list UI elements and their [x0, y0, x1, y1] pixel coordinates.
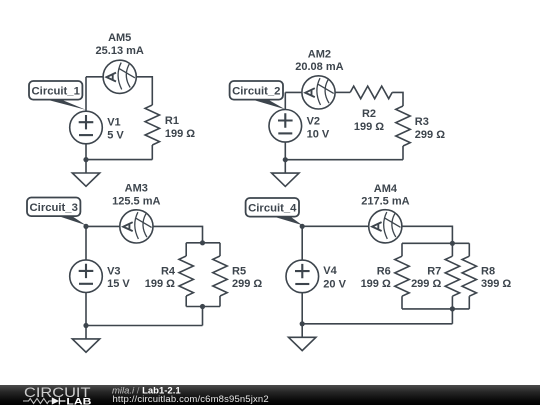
svg-text:LAB: LAB — [66, 396, 91, 406]
svg-text:15 V: 15 V — [107, 278, 130, 290]
svg-text:Circuit_3: Circuit_3 — [30, 202, 78, 214]
svg-text:399 Ω: 399 Ω — [481, 278, 511, 290]
svg-text:V1: V1 — [107, 117, 120, 129]
svg-text:10 V: 10 V — [307, 129, 330, 141]
svg-text:299 Ω: 299 Ω — [415, 129, 445, 141]
svg-text:R7: R7 — [427, 266, 441, 278]
svg-text:AM5: AM5 — [108, 32, 131, 44]
svg-text:Circuit_4: Circuit_4 — [248, 203, 297, 215]
svg-text:199 Ω: 199 Ω — [361, 278, 391, 290]
svg-text:299 Ω: 299 Ω — [232, 278, 262, 290]
svg-text:AM4: AM4 — [374, 183, 398, 195]
svg-text:25.13 mA: 25.13 mA — [96, 45, 144, 57]
svg-text:20 V: 20 V — [323, 278, 346, 290]
svg-text:V4: V4 — [323, 265, 337, 277]
svg-text:217.5 mA: 217.5 mA — [361, 196, 409, 208]
svg-text:125.5 mA: 125.5 mA — [112, 196, 160, 208]
svg-text:R2: R2 — [362, 108, 376, 120]
svg-text:299 Ω: 299 Ω — [411, 278, 441, 290]
svg-text:20.08 mA: 20.08 mA — [295, 61, 343, 73]
svg-text:R8: R8 — [481, 266, 495, 278]
svg-text:199 Ω: 199 Ω — [354, 121, 384, 133]
svg-text:AM2: AM2 — [308, 48, 331, 60]
svg-text:199 Ω: 199 Ω — [145, 278, 175, 290]
svg-text:V3: V3 — [107, 265, 120, 277]
svg-text:R3: R3 — [415, 116, 429, 128]
svg-text:Circuit_1: Circuit_1 — [32, 86, 80, 98]
svg-text:R6: R6 — [377, 266, 391, 278]
svg-text:R1: R1 — [165, 115, 179, 127]
svg-text:199 Ω: 199 Ω — [165, 128, 195, 140]
svg-text:R5: R5 — [232, 266, 246, 278]
svg-text:Circuit_2: Circuit_2 — [232, 86, 280, 98]
svg-text:5 V: 5 V — [107, 130, 124, 142]
svg-text:R4: R4 — [161, 266, 176, 278]
svg-text:V2: V2 — [307, 116, 320, 128]
svg-text:http://circuitlab.com/c6m8s95n: http://circuitlab.com/c6m8s95n5jxn2 — [113, 394, 269, 405]
svg-text:AM3: AM3 — [125, 183, 148, 195]
